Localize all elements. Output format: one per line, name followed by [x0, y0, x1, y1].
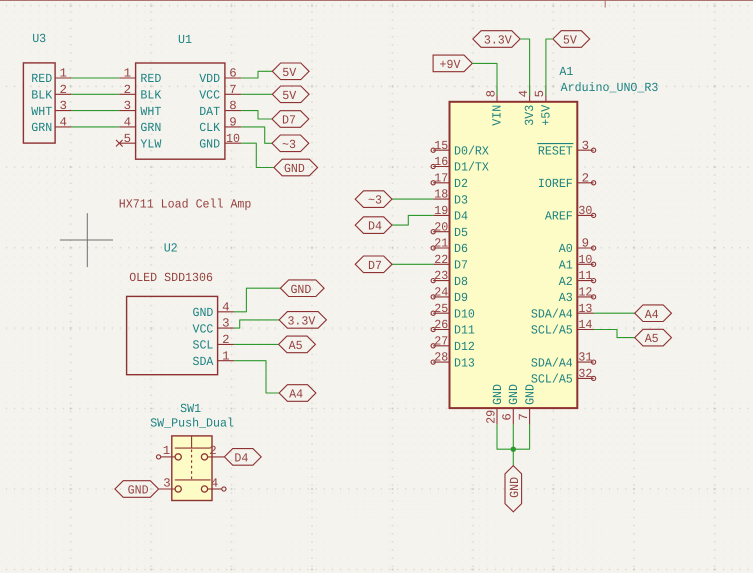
net label D4 [355, 217, 392, 234]
A1 body [450, 102, 578, 408]
A1 pin 24 D9 [433, 286, 468, 306]
svg-text:D10: D10 [454, 307, 475, 321]
svg-text:3: 3 [59, 99, 66, 113]
net label A4 [279, 385, 316, 402]
svg-text:GND: GND [523, 384, 537, 405]
svg-text:12: 12 [578, 286, 592, 300]
svg-text:SCL: SCL [193, 339, 214, 353]
svg-text:RED: RED [31, 72, 52, 86]
A1 pin 19 D4 [433, 204, 468, 224]
svg-text:SCL/A5: SCL/A5 [531, 324, 573, 338]
switch SW1 SW_Push_Dual [150, 402, 234, 501]
A1 pin 23 D8 [433, 269, 468, 289]
A1 pin 3 RESET [537, 139, 593, 159]
svg-text:A5: A5 [289, 339, 303, 353]
net label D7 [355, 256, 392, 273]
U3 body [23, 63, 55, 143]
power label GND [505, 466, 522, 512]
wire [472, 63, 497, 95]
svg-text:5: 5 [533, 90, 547, 97]
svg-text:7: 7 [517, 413, 531, 420]
wire [234, 288, 281, 312]
wire [241, 127, 272, 143]
svg-text:4: 4 [517, 90, 531, 97]
svg-text:A5: A5 [645, 332, 659, 346]
connector U3 [23, 32, 71, 143]
SW1 pin 4 [208, 476, 222, 490]
svg-text:D4: D4 [368, 220, 382, 234]
wire [241, 143, 274, 167]
svg-text:GRN: GRN [31, 121, 52, 135]
A1 pin 2 IOREF [538, 171, 594, 191]
net label A5 [635, 329, 672, 346]
svg-text:4: 4 [59, 116, 66, 130]
A1 pin 12 A3 [559, 286, 594, 306]
svg-text:14: 14 [578, 318, 592, 332]
wire [71, 110, 119, 112]
svg-text:24: 24 [434, 286, 448, 300]
svg-text:VIN: VIN [490, 105, 504, 126]
svg-text:2: 2 [582, 171, 589, 185]
svg-text:4: 4 [211, 476, 218, 490]
svg-text:RED: RED [140, 72, 161, 86]
A1 pin 29 GND [484, 384, 505, 424]
svg-text:GND: GND [193, 306, 214, 320]
wire [71, 93, 119, 95]
wire [520, 39, 530, 96]
svg-text:25: 25 [434, 302, 448, 316]
wire [71, 77, 119, 79]
svg-text:D8: D8 [454, 275, 468, 289]
svg-text:WHT: WHT [140, 105, 161, 119]
A1 pin 28 D13 [433, 351, 475, 371]
U1 pin 9 CLK [199, 116, 241, 136]
svg-text:D2: D2 [454, 177, 468, 191]
U1 pin 2 BLK [119, 83, 162, 103]
svg-text:2: 2 [222, 333, 229, 347]
junction [511, 447, 516, 452]
module A1 Arduino_UNO_R3 [433, 65, 658, 425]
unconnected pin end A1 pin 3 [592, 148, 596, 152]
A1 pin 18 D3 [433, 188, 468, 208]
svg-text:3.3V: 3.3V [287, 315, 315, 329]
wire [512, 424, 514, 465]
value OLED SDD1306 [129, 271, 213, 285]
reference U1 [178, 33, 192, 47]
U2 body [127, 296, 218, 374]
svg-text:D5: D5 [454, 226, 468, 240]
svg-text:BLK: BLK [140, 89, 161, 103]
crosshair cursor [60, 213, 113, 267]
svg-text:A4: A4 [645, 308, 659, 322]
svg-text:16: 16 [434, 155, 448, 169]
A1 pin 17 D2 [433, 171, 468, 191]
power label 5V [272, 63, 309, 80]
power label 5V [272, 86, 309, 103]
svg-text:A2: A2 [559, 275, 573, 289]
svg-text:18: 18 [434, 188, 448, 202]
svg-text:D4: D4 [454, 210, 468, 224]
U3 pin 1 RED [31, 67, 71, 87]
svg-text:3V3: 3V3 [523, 105, 537, 126]
svg-text:OLED SDD1306: OLED SDD1306 [129, 271, 213, 285]
unconnected pin end A1 pin 12 [592, 295, 596, 299]
svg-text:10: 10 [578, 253, 592, 267]
svg-text:5: 5 [124, 132, 131, 146]
reference SW1 [180, 402, 201, 416]
svg-text:GND: GND [290, 283, 311, 297]
U2 pin 3 VCC [193, 317, 234, 337]
svg-text:A1: A1 [559, 65, 573, 79]
svg-text:9: 9 [229, 116, 236, 130]
power label 3.3V [279, 312, 326, 329]
svg-text:GND: GND [199, 137, 220, 151]
A1 pin 15 D0/RX [433, 139, 489, 159]
A1 pin 8 VIN [484, 86, 504, 126]
svg-text:GND: GND [508, 477, 522, 498]
wire [234, 343, 279, 345]
power label GND [274, 159, 318, 176]
svg-text:3: 3 [582, 139, 589, 153]
svg-text:11: 11 [578, 269, 592, 283]
svg-text:SDA: SDA [193, 355, 214, 369]
svg-text:26: 26 [434, 318, 448, 332]
unconnected pin end A1 pin 31 [592, 360, 596, 364]
svg-text:2: 2 [124, 83, 131, 97]
unconnected pin end A1 pin 16 [431, 164, 435, 168]
svg-text:A0: A0 [559, 242, 573, 256]
svg-text:2: 2 [59, 83, 66, 97]
U1 pin 5 YLW [119, 132, 162, 152]
svg-text:23: 23 [434, 269, 448, 283]
svg-text:SW1: SW1 [180, 402, 201, 416]
A1 pin 20 D5 [433, 220, 468, 240]
svg-text:D4: D4 [234, 452, 248, 466]
U2 pin 2 SCL [193, 333, 234, 353]
unconnected pin end A1 pin 25 [431, 311, 435, 315]
svg-text:SDA/A4: SDA/A4 [531, 307, 573, 321]
value SW_Push_Dual [150, 417, 234, 431]
A1 pin 30 AREF [545, 204, 594, 224]
wire [497, 424, 513, 449]
svg-text:GND: GND [284, 162, 305, 176]
reference A1 [559, 65, 573, 79]
svg-text:D9: D9 [454, 291, 468, 305]
svg-text:+5V: +5V [539, 104, 553, 125]
SW1 body [172, 436, 212, 501]
svg-text:VCC: VCC [199, 89, 220, 103]
A1 pin 31 SDA/A4 [531, 351, 594, 371]
U1 pin 6 VDD [199, 67, 241, 87]
svg-text:SW_Push_Dual: SW_Push_Dual [150, 417, 234, 431]
A1 pin 10 A1 [559, 253, 594, 273]
net label A4 [635, 305, 672, 322]
A1 pin 27 D12 [433, 334, 475, 354]
svg-text:GND: GND [128, 484, 149, 498]
reference U3 [32, 32, 46, 46]
svg-text:3: 3 [124, 99, 131, 113]
svg-text:5V: 5V [282, 89, 297, 103]
svg-text:30: 30 [578, 204, 592, 218]
U2 pin 1 SDA [193, 349, 234, 369]
unconnected pin end A1 pin 26 [431, 327, 435, 331]
U3 pin 3 WHT [31, 99, 71, 119]
unconnected pin end A1 pin 27 [431, 344, 435, 348]
A1 pin 9 A0 [559, 237, 594, 257]
A1 pin 26 D11 [433, 318, 475, 338]
svg-text:VCC: VCC [193, 322, 214, 336]
svg-text:1: 1 [59, 67, 66, 81]
U1 pin 7 VCC [199, 83, 241, 103]
U1 pin 8 DAT [199, 99, 241, 119]
wire [594, 312, 635, 314]
svg-text:YLW: YLW [140, 137, 161, 151]
svg-text:1: 1 [124, 67, 131, 81]
wire [71, 126, 119, 128]
svg-text:32: 32 [578, 367, 592, 381]
svg-text:15: 15 [434, 139, 448, 153]
svg-text:9: 9 [582, 237, 589, 251]
SW1 pin 2 [208, 444, 225, 458]
svg-text:4: 4 [222, 300, 229, 314]
value Arduino_UNO_R3 [561, 81, 659, 95]
unconnected pin end A1 pin 11 [592, 279, 596, 283]
svg-text:A1: A1 [559, 259, 573, 273]
unconnected pin end A1 pin 10 [592, 262, 596, 266]
A1 pin 14 SCL/A5 [531, 318, 594, 338]
A1 pin 16 D1/TX [433, 155, 489, 175]
svg-text:GND: GND [507, 384, 521, 405]
SW1 actuator [175, 436, 211, 480]
svg-text:21: 21 [434, 237, 448, 251]
svg-text:3: 3 [222, 317, 229, 331]
svg-text:~3: ~3 [368, 194, 382, 208]
svg-text:31: 31 [578, 351, 592, 365]
svg-text:4: 4 [124, 116, 131, 130]
unconnected pin end A1 pin 15 [431, 148, 435, 152]
SW1 pin 3 [159, 476, 176, 490]
IC U2 OLED [127, 241, 234, 374]
reference U2 [164, 241, 178, 255]
U1 pin 3 WHT [119, 99, 161, 119]
unconnected pin end A1 pin 21 [431, 246, 435, 250]
unconnected pin end A1 pin 9 [592, 246, 596, 250]
unconnected pin end A1 pin 2 [592, 181, 596, 185]
svg-text:28: 28 [434, 351, 448, 365]
svg-text:19: 19 [434, 204, 448, 218]
IC U1 HX711 [119, 33, 241, 159]
unconnected pin end A1 pin 17 [431, 181, 435, 185]
svg-text:6: 6 [229, 67, 236, 81]
svg-text:D7: D7 [282, 114, 296, 128]
svg-text:27: 27 [434, 334, 448, 348]
no-connect marker U1 pin 5 [116, 140, 123, 147]
svg-text:IOREF: IOREF [538, 177, 573, 191]
svg-text:D1/TX: D1/TX [454, 161, 489, 175]
wire [392, 215, 433, 225]
SW1 contacts [175, 454, 208, 492]
power label 5V [553, 31, 590, 48]
A1 pin 7 GND [517, 384, 538, 424]
svg-text:5V: 5V [563, 34, 578, 48]
unconnected pin end A1 pin 24 [431, 295, 435, 299]
svg-text:10: 10 [226, 132, 240, 146]
svg-text:RESET: RESET [538, 144, 573, 158]
A1 pin 5 +5V [533, 86, 553, 126]
svg-text:D6: D6 [454, 242, 468, 256]
A1 pin 22 D7 [433, 253, 468, 273]
svg-text:U2: U2 [164, 241, 178, 255]
A1 pin 25 D10 [433, 302, 475, 322]
net label ~3 [272, 135, 309, 152]
svg-text:D11: D11 [454, 324, 475, 338]
U3 pin 4 GRN [31, 116, 71, 136]
unconnected pin end SW1 pin1 [157, 455, 161, 459]
power label GND [115, 481, 159, 498]
svg-text:7: 7 [229, 83, 236, 97]
svg-text:U3: U3 [32, 32, 46, 46]
svg-text:DAT: DAT [199, 105, 220, 119]
svg-text:8: 8 [229, 99, 236, 113]
wire [241, 111, 272, 119]
wire [392, 198, 433, 200]
svg-text:SDA/A4: SDA/A4 [531, 356, 573, 370]
unconnected pin end A1 pin 23 [431, 279, 435, 283]
U2 pin 4 GND [193, 300, 234, 320]
svg-text:D13: D13 [454, 356, 475, 370]
svg-text:20: 20 [434, 220, 448, 234]
svg-text:GND: GND [491, 384, 505, 405]
A1 pin 11 A2 [559, 269, 594, 289]
svg-text:+9V: +9V [440, 58, 461, 72]
U1 pin 10 GND [199, 132, 241, 152]
SW1 pin 1 [161, 444, 175, 458]
A1 pin 21 D6 [433, 237, 468, 257]
net label D7 [272, 111, 309, 128]
A1 pin 13 SDA/A4 [531, 302, 594, 322]
svg-text:BLK: BLK [31, 89, 52, 103]
power label 3.3V [473, 31, 520, 48]
svg-text:3: 3 [163, 476, 170, 490]
svg-text:CLK: CLK [199, 121, 220, 135]
wire [392, 263, 433, 265]
A1 pin 32 SCL/A5 [531, 367, 594, 387]
svg-text:GRN: GRN [140, 121, 161, 135]
svg-text:AREF: AREF [545, 210, 573, 224]
wire [513, 424, 529, 449]
svg-text:HX711 Load Cell Amp: HX711 Load Cell Amp [119, 197, 252, 211]
svg-text:VDD: VDD [199, 72, 220, 86]
unconnected pin end A1 pin 28 [431, 360, 435, 364]
svg-text:3.3V: 3.3V [484, 34, 512, 48]
net label ~3 [355, 191, 392, 208]
svg-text:1: 1 [222, 349, 229, 363]
U1 pin 1 RED [119, 67, 161, 87]
svg-text:22: 22 [434, 253, 448, 267]
A1 pin 4 3V3 [517, 86, 537, 126]
unconnected pin end A1 pin 30 [592, 213, 596, 217]
wire [241, 93, 272, 95]
U1 pin 4 GRN [119, 116, 161, 136]
svg-text:D3: D3 [454, 193, 468, 207]
svg-text:A4: A4 [289, 388, 303, 402]
svg-text:6: 6 [501, 413, 515, 420]
svg-text:D12: D12 [454, 340, 475, 354]
unconnected pin end A1 pin 32 [592, 376, 596, 380]
power label GND [280, 280, 324, 297]
svg-text:U1: U1 [178, 33, 192, 47]
unconnected pin end SW1 pin4 [222, 487, 226, 491]
unconnected pin end A1 pin 20 [431, 230, 435, 234]
U3 pin 2 BLK [31, 83, 71, 103]
svg-text:1: 1 [163, 444, 170, 458]
svg-text:D7: D7 [368, 259, 382, 273]
svg-text:A3: A3 [559, 291, 573, 305]
wire [234, 320, 279, 328]
net label D4 [224, 449, 261, 466]
power label +9V [433, 55, 472, 72]
svg-text:Arduino_UNO_R3: Arduino_UNO_R3 [561, 81, 659, 95]
svg-text:8: 8 [484, 90, 498, 97]
svg-text:WHT: WHT [31, 105, 52, 119]
A1 pin 6 GND [501, 384, 521, 424]
wire [241, 71, 272, 78]
svg-text:2: 2 [209, 444, 216, 458]
U1 body [136, 63, 225, 159]
wire [594, 330, 635, 338]
svg-text:5V: 5V [282, 66, 297, 80]
svg-text:~3: ~3 [282, 138, 296, 152]
svg-text:D7: D7 [454, 259, 468, 273]
svg-text:D0/RX: D0/RX [454, 144, 489, 158]
svg-text:29: 29 [484, 410, 498, 424]
svg-text:17: 17 [434, 171, 448, 185]
net label A5 [279, 336, 316, 353]
svg-text:13: 13 [578, 302, 592, 316]
wire [546, 39, 553, 96]
wire [234, 361, 279, 393]
